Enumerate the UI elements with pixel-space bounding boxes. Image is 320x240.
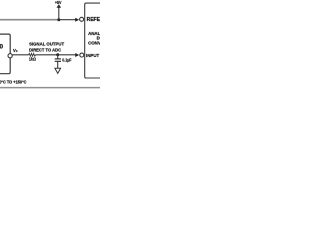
svg-text:+5V: +5V: [55, 0, 62, 5]
capacitor C 0.1uF top plate: [55, 58, 61, 60]
arrowhead into INPUT pin: [75, 53, 79, 57]
svg-text:CONVERTER: CONVERTER: [88, 40, 100, 45]
svg-text:0: 0: [0, 44, 3, 51]
node circle VO output pin: [8, 54, 12, 58]
wire +5V supply rail (left gray segment): [0, 19, 59, 21]
svg-text:1kΩ: 1kΩ: [29, 57, 36, 62]
wire sensor output to resistor: [12, 54, 28, 56]
sensor box AD22100 (cut off at left image edge): [0, 34, 10, 74]
ground symbol (open triangle): [55, 68, 61, 73]
svg-text:DIRECT TO ADC: DIRECT TO ADC: [29, 48, 62, 53]
+5V arrowhead (up): [57, 4, 62, 8]
wire capacitor stem upper: [57, 55, 59, 59]
wire resistor to ADC input: [36, 54, 76, 56]
pin circle INPUT: [80, 53, 84, 57]
svg-text:0°C TO +150°C: 0°C TO +150°C: [0, 79, 26, 84]
wire capacitor stem lower: [57, 62, 59, 69]
pin circle REFERENCE: [80, 17, 84, 21]
svg-text:0.1µF: 0.1µF: [62, 58, 71, 63]
resistor R 1k zigzag: [29, 53, 36, 56]
bottom ground rail (gray, cropped remnant): [0, 87, 100, 89]
wire supply rail to ADC reference (dark segment): [58, 19, 76, 21]
svg-text:REFERENCE: REFERENCE: [87, 17, 100, 23]
ADC box (right, cut off at image edge): [85, 3, 101, 78]
svg-text:SIGNAL OUTPUT: SIGNAL OUTPUT: [29, 41, 64, 46]
svg-text:INPUT: INPUT: [86, 53, 99, 58]
node junction dot on rail: [57, 18, 60, 21]
node junction dot capacitor tap: [56, 53, 59, 56]
arrowhead into REFERENCE pin: [75, 18, 79, 22]
capacitor C 0.1uF bottom plate: [55, 60, 61, 62]
wire +5V vertical stem: [58, 6, 60, 20]
